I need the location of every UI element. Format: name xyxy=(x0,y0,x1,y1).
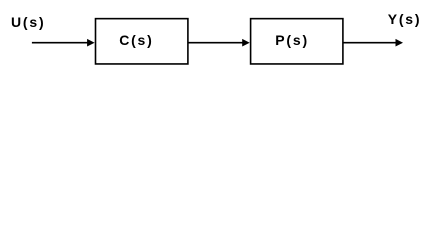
block P1 plant box xyxy=(251,19,343,64)
svg-text:Y(s): Y(s) xyxy=(388,11,422,27)
wire arrow from P(s) to output Y(s) xyxy=(343,39,403,47)
svg-text:U(s): U(s) xyxy=(11,14,45,30)
wire arrow from U(s) into C(s) xyxy=(32,39,95,47)
wire arrow from C(s) to P(s) xyxy=(188,39,250,47)
svg-text:P(s): P(s) xyxy=(275,32,309,48)
block C1 controller box xyxy=(96,19,188,64)
svg-text:C(s): C(s) xyxy=(119,32,153,48)
